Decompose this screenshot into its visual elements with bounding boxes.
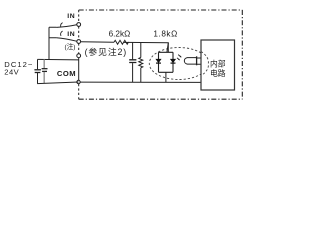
light arrow 1: [178, 55, 181, 58]
photodetector output stubs: [197, 58, 201, 64]
switch tick S2: [61, 31, 63, 36]
battery cell right: [43, 60, 45, 69]
LED entry wire: [167, 43, 168, 53]
light arrow 2: [177, 58, 180, 60]
battery cell left: [37, 59, 39, 69]
wire resistor to corner: [124, 42, 169, 52]
svg-text:1.8kΩ: 1.8kΩ: [153, 29, 177, 38]
wire terminal3 down to COM junction: [78, 58, 80, 81]
ellipse part inside box redrawn over white: [201, 52, 208, 76]
module outline left border segment IN1-IN2: [78, 26, 80, 39]
svg-text:6.2kΩ: 6.2kΩ: [109, 29, 131, 38]
switch lever S1: [56, 25, 76, 28]
svg-text:IN: IN: [67, 31, 75, 38]
capacitor C branch top lead: [132, 42, 134, 59]
svg-text:IN: IN: [67, 13, 75, 20]
LED pair rectangle frame: [159, 52, 174, 72]
module outline left border segment below COM junction: [78, 84, 80, 99]
module outline right border: [241, 10, 243, 99]
module outline top border: [79, 9, 243, 11]
capacitor C plates: [129, 60, 136, 63]
COM junction node: [77, 80, 80, 83]
LED diode right (down): [171, 59, 176, 62]
svg-text:24V: 24V: [4, 67, 19, 76]
resistor (vertical) bottom lead: [140, 68, 142, 83]
module outline left border segment above IN1: [78, 10, 80, 23]
module outline left border segment IN2-terminal3: [78, 43, 80, 53]
svg-text:(参见注2): (参见注2): [85, 46, 128, 57]
resistor (vertical) zigzag: [139, 58, 143, 68]
terminal circle 3: [77, 54, 81, 58]
terminal circle IN1: [77, 23, 81, 27]
wire IN2 to resistor 6.2k: [81, 41, 114, 44]
svg-text:(注): (注): [65, 42, 76, 51]
svg-text:COM: COM: [57, 69, 76, 78]
resistor R 6.2k zigzag: [114, 40, 129, 44]
photodetector bar: [196, 56, 198, 65]
wire branch vertical from battery top to switches: [49, 27, 56, 59]
COM rail into module: [80, 81, 201, 83]
LED diode left (down): [156, 59, 161, 62]
optocoupler dashed ellipse: [149, 48, 208, 80]
module outline bottom border: [79, 98, 243, 100]
svg-text:电路: 电路: [210, 68, 226, 78]
capacitor C bottom lead: [132, 63, 134, 82]
LED exit wire: [165, 72, 167, 82]
photodetector stadium: [184, 58, 196, 65]
switch lever S2: [56, 38, 76, 41]
battery bottom rail to COM junction: [37, 82, 78, 84]
battery top rail: [38, 58, 79, 61]
internal circuit box: [201, 40, 235, 90]
resistor (vertical) branch top lead: [140, 43, 142, 58]
switch tick S1: [61, 23, 63, 28]
terminal circle IN2: [77, 40, 81, 44]
svg-text:内部: 内部: [210, 59, 226, 69]
